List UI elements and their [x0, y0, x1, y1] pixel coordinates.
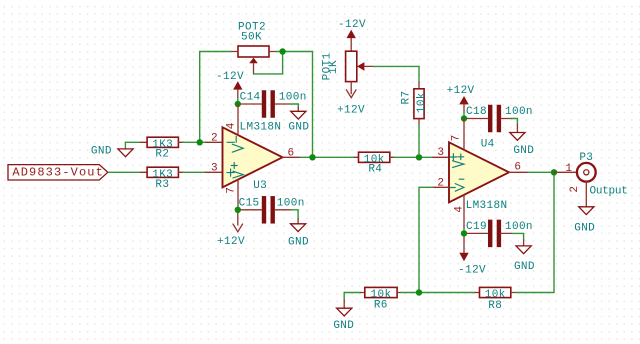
svg-text:R2: R2 — [155, 148, 169, 160]
svg-text:-12V: -12V — [338, 19, 366, 31]
svg-text:1: 1 — [565, 163, 572, 175]
svg-text:+12V: +12V — [337, 105, 365, 117]
svg-text:LM318N: LM318N — [466, 200, 508, 212]
svg-text:2: 2 — [211, 133, 218, 145]
svg-text:4: 4 — [226, 122, 238, 129]
svg-text:+12V: +12V — [447, 85, 475, 97]
svg-text:-12V: -12V — [458, 264, 486, 276]
svg-text:R3: R3 — [155, 179, 169, 191]
svg-text:R6: R6 — [374, 300, 388, 312]
svg-text:-12V: -12V — [216, 71, 244, 83]
svg-text:C18: C18 — [466, 106, 487, 118]
svg-text:3: 3 — [211, 163, 218, 175]
svg-text:R8: R8 — [488, 300, 502, 312]
svg-text:6: 6 — [288, 148, 295, 160]
svg-text:6: 6 — [514, 162, 521, 174]
svg-text:AD9833-Vout: AD9833-Vout — [12, 166, 104, 180]
svg-text:1K: 1K — [328, 60, 340, 74]
svg-text:+12V: +12V — [217, 236, 245, 248]
svg-text:R4: R4 — [368, 163, 382, 175]
svg-text:100n: 100n — [505, 106, 533, 118]
svg-text:2: 2 — [569, 186, 581, 193]
svg-text:10k: 10k — [416, 92, 428, 113]
svg-text:GND: GND — [574, 222, 595, 234]
svg-text:GND: GND — [288, 122, 309, 134]
svg-text:GND: GND — [333, 320, 354, 332]
svg-text:C15: C15 — [239, 198, 260, 210]
svg-text:100n: 100n — [505, 221, 533, 233]
svg-text:C14: C14 — [240, 91, 261, 103]
svg-text:LM318N: LM318N — [240, 122, 282, 134]
svg-text:R7: R7 — [401, 91, 413, 105]
svg-text:GND: GND — [288, 236, 309, 248]
svg-text:50K: 50K — [241, 31, 262, 43]
svg-text:7: 7 — [450, 134, 462, 141]
svg-text:100n: 100n — [279, 91, 307, 103]
svg-text:7: 7 — [226, 187, 238, 194]
svg-text:C19: C19 — [466, 221, 487, 233]
svg-text:GND: GND — [91, 145, 112, 157]
svg-text:3: 3 — [437, 147, 444, 159]
svg-text:U4: U4 — [481, 139, 495, 151]
svg-text:GND: GND — [514, 261, 535, 273]
svg-text:GND: GND — [513, 145, 534, 157]
svg-text:4: 4 — [454, 206, 466, 213]
svg-text:Output: Output — [590, 186, 628, 198]
svg-text:100n: 100n — [277, 198, 305, 210]
svg-text:U3: U3 — [253, 180, 267, 192]
